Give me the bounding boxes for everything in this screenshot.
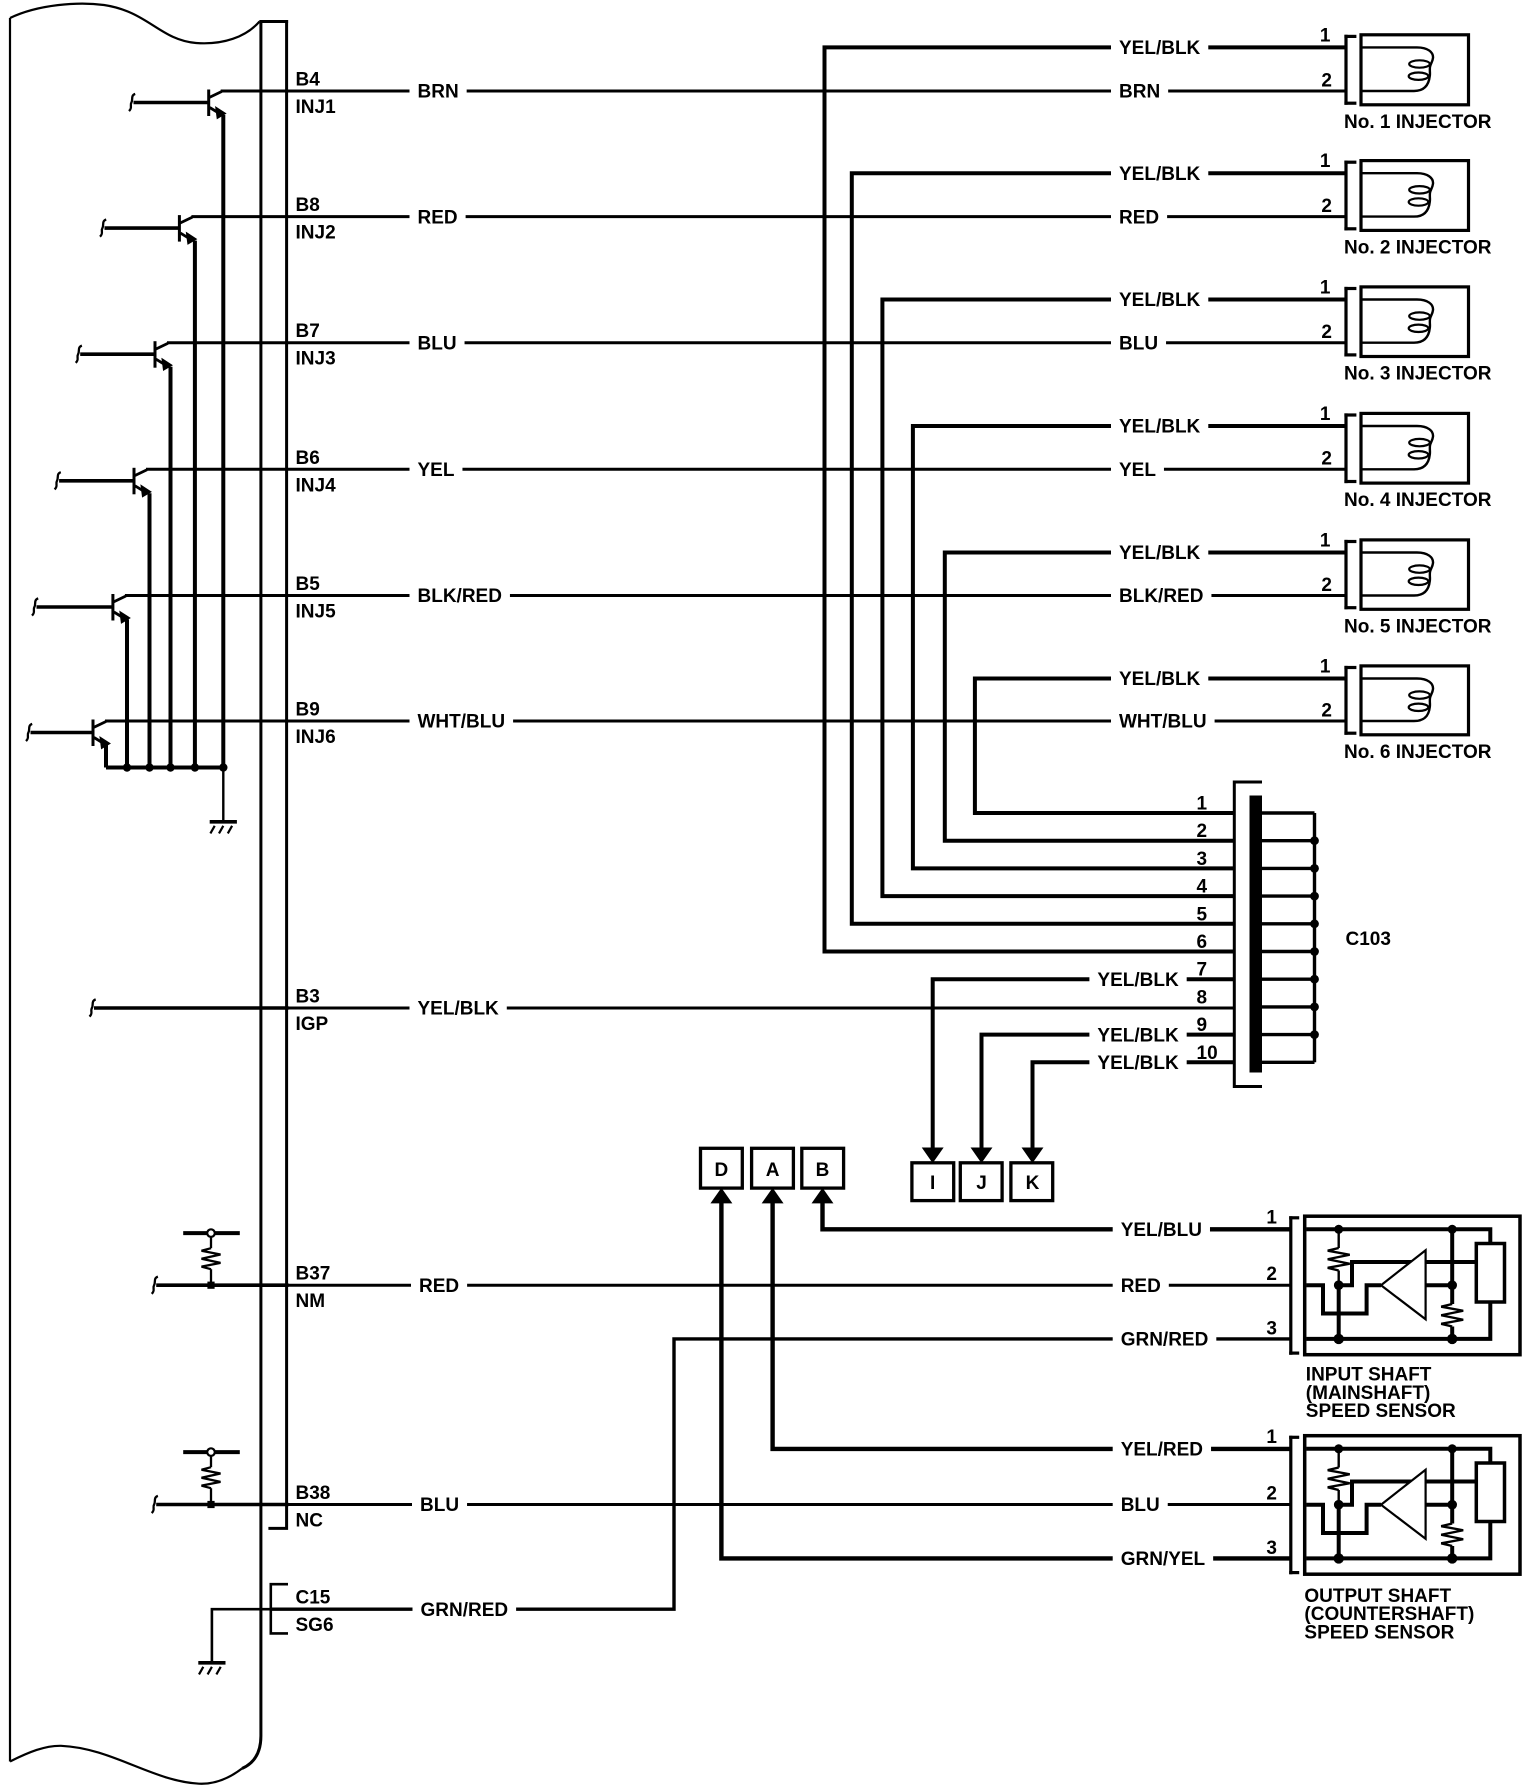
connector box D — [701, 1148, 743, 1188]
input shaft speed sensor amplifier — [1381, 1250, 1426, 1319]
wire YEL/BLK from B3/IGP to C103 pin 8 — [285, 1007, 1236, 1010]
svg-text:1: 1 — [1320, 151, 1331, 172]
svg-text:B3: B3 — [296, 987, 320, 1008]
wire label YEL/BLK (injector 4 pin 1) — [1111, 416, 1208, 437]
svg-text:2: 2 — [1321, 449, 1332, 470]
svg-text:2: 2 — [1197, 821, 1208, 842]
ECM torn-edge bottom wave — [10, 1746, 242, 1784]
transistor Q2 (INJ2 driver) base squiggle — [100, 220, 106, 237]
junction — [207, 1282, 214, 1289]
svg-text:BLU: BLU — [418, 333, 457, 354]
ECM connector strip right edge with bottom stub — [268, 20, 286, 1528]
transistor Q5 (INJ5 driver) base squiggle — [32, 598, 38, 615]
junction input shaft speed sensor bottom bus left — [1334, 1334, 1344, 1344]
transistor Q3 base bar — [154, 341, 157, 368]
svg-text:B37: B37 — [296, 1264, 331, 1285]
wire colour label WHT/BLU (left) — [410, 711, 514, 732]
svg-text:NC: NC — [296, 1511, 324, 1532]
connector C103 terminal 7 stub — [1262, 978, 1315, 981]
svg-text:YEL/BLK: YEL/BLK — [1119, 38, 1201, 59]
wire BLU from B38/NC to output shaft speed sensor pin 2 — [285, 1503, 1291, 1506]
svg-text:BLK/RED: BLK/RED — [418, 586, 502, 607]
No. 5 injector body — [1361, 540, 1469, 609]
ECM connector strip left edge — [242, 20, 261, 1769]
No. 3 injector body — [1361, 287, 1469, 357]
No. 4 injector coil — [1361, 426, 1433, 469]
wire YEL/BLK to No.1 injector pin 1 with riser to C103 pin 6 — [825, 47, 1345, 951]
svg-text:YEL/BLK: YEL/BLK — [418, 999, 500, 1020]
transistor Q4 (INJ4 driver) base squiggle — [55, 472, 61, 489]
svg-text:1: 1 — [1266, 1207, 1277, 1228]
svg-text:4: 4 — [1197, 877, 1208, 898]
output shaft speed sensor internal top bus — [1306, 1449, 1490, 1463]
emitter ground bus — [106, 766, 223, 770]
junction C103 terminal 4 — [1310, 892, 1319, 901]
svg-text:J: J — [976, 1173, 987, 1194]
wire colour label BLU (right) — [1111, 332, 1166, 353]
transistor Q5 base bar — [111, 594, 114, 621]
wire colour label WHT/BLU (right) — [1111, 711, 1215, 732]
wire colour label BLK/RED (right) — [1111, 585, 1211, 606]
svg-text:1: 1 — [1197, 794, 1208, 815]
svg-text:WHT/BLU: WHT/BLU — [418, 712, 506, 733]
transistor Q2 base bar — [178, 215, 181, 242]
wire label YEL/BLK (IGP) — [410, 998, 507, 1019]
svg-text:GRN/RED: GRN/RED — [421, 1600, 509, 1621]
wire WHT/BLU from pin B9 to No.6 injector pin 2 — [105, 720, 1345, 723]
input shaft speed sensor amplifier output wire — [1427, 1283, 1453, 1287]
svg-text:No. 1 INJECTOR: No. 1 INJECTOR — [1344, 112, 1492, 133]
arrow into connector K — [1023, 1148, 1043, 1162]
transistor Q4 emitter with arrow — [135, 486, 144, 492]
junction C103 terminal 8 — [1310, 1003, 1319, 1012]
svg-text:No. 4 INJECTOR: No. 4 INJECTOR — [1344, 490, 1492, 511]
transistor Q1 (INJ1 driver) base squiggle — [129, 94, 135, 111]
svg-text:BRN: BRN — [418, 82, 459, 103]
transistor Q4 base bar — [133, 468, 136, 495]
svg-text:SG6: SG6 — [296, 1615, 334, 1636]
junction C103 terminal 9 — [1310, 1030, 1319, 1039]
transistor Q6 base bar — [92, 720, 95, 747]
junction input shaft speed sensor top bus left — [1334, 1225, 1343, 1234]
output shaft speed sensor bias resistor (left) — [1337, 1449, 1339, 1468]
ECU pin C15 bracket — [271, 1584, 288, 1633]
svg-text:YEL/BLK: YEL/BLK — [1119, 164, 1201, 185]
transistor Q6 (INJ6 driver) base squiggle — [26, 724, 32, 741]
output shaft speed sensor internal bottom bus — [1306, 1522, 1490, 1559]
input shaft speed sensor body — [1305, 1216, 1520, 1355]
input shaft speed sensor internal bottom bus — [1306, 1302, 1490, 1339]
svg-text:YEL/BLK: YEL/BLK — [1119, 669, 1201, 690]
connector C103 terminal bar — [1250, 796, 1262, 1072]
No. 1 injector connector bracket — [1344, 35, 1347, 105]
transistor Q6 emitter with arrow — [94, 738, 103, 744]
rail connection circle — [207, 1229, 215, 1237]
svg-text:No. 2 INJECTOR: No. 2 INJECTOR — [1344, 237, 1492, 258]
svg-text:C103: C103 — [1346, 929, 1391, 950]
svg-text:RED: RED — [418, 207, 458, 228]
junction emitter bus 5 — [219, 763, 227, 771]
svg-text:5: 5 — [1197, 904, 1208, 925]
junction output shaft speed sensor top bus right — [1448, 1444, 1457, 1453]
junction emitter bus 1 — [123, 763, 131, 771]
wire colour label BLK/RED (left) — [410, 585, 510, 606]
connector box I — [912, 1163, 954, 1201]
junction input shaft speed sensor bottom bus right — [1447, 1334, 1457, 1344]
svg-text:2: 2 — [1321, 196, 1332, 217]
connector C103 terminal 8 stub — [1262, 1005, 1315, 1008]
ECM torn-edge top wave — [10, 4, 260, 44]
svg-text:INJ3: INJ3 — [296, 349, 336, 370]
svg-text:YEL/BLK: YEL/BLK — [1097, 1025, 1179, 1046]
transistor Q1 collector — [209, 92, 222, 98]
junction output shaft speed sensor top bus left — [1334, 1444, 1343, 1453]
junction emitter bus 2 — [145, 763, 153, 771]
wire YEL/BLK to No.5 injector pin 1 with riser to C103 pin 2 — [945, 553, 1345, 841]
connector C103 terminal tie bar — [1313, 813, 1316, 1062]
svg-text:YEL/BLK: YEL/BLK — [1119, 417, 1201, 438]
transistor Q2 base wire — [105, 226, 180, 230]
junction C103 terminal 7 — [1310, 975, 1319, 984]
connector C103 terminal 4 stub — [1262, 894, 1315, 897]
No. 5 injector coil — [1361, 553, 1433, 596]
svg-text:B8: B8 — [296, 195, 320, 216]
svg-text:B4: B4 — [296, 70, 321, 91]
svg-text:BRN: BRN — [1119, 82, 1160, 103]
connector C103 terminal 3 stub — [1262, 867, 1315, 870]
wire colour label RED (right) — [1113, 1275, 1169, 1296]
input shaft speed sensor bias resistor (left) — [1337, 1229, 1339, 1248]
wire colour label RED (right) — [1111, 206, 1167, 227]
wire colour label BRN (right) — [1111, 81, 1168, 102]
junction emitter bus 4 — [191, 763, 199, 771]
junction input shaft speed sensor amp output — [1447, 1280, 1457, 1290]
svg-text:SPEED SENSOR: SPEED SENSOR — [1306, 1401, 1456, 1422]
input shaft speed sensor connector bracket — [1289, 1216, 1292, 1355]
wire BLU from pin B7 to No.3 injector pin 2 — [167, 341, 1345, 344]
wire label YEL/BLK (I) — [1089, 969, 1186, 990]
connector C103 shell — [1234, 782, 1262, 1087]
wire colour label BLU (left) — [410, 332, 465, 353]
connector C103 terminal 2 stub — [1262, 839, 1315, 842]
input shaft speed sensor pin 2 input path — [1306, 1285, 1381, 1313]
svg-text:YEL/BLK: YEL/BLK — [1097, 1053, 1179, 1074]
wire colour label RED (left) — [410, 206, 466, 227]
ECM/PCM torn-edge outline left border — [9, 18, 11, 1762]
junction C103 terminal 6 — [1310, 947, 1319, 956]
wire YEL/BLK from connector J to C103 — [982, 1035, 1236, 1150]
svg-text:B38: B38 — [296, 1483, 331, 1504]
wire YEL/BLK to No.6 injector pin 1 with riser to C103 pin 1 — [975, 679, 1345, 814]
wire label YEL/BLK (K) — [1089, 1052, 1186, 1073]
wire label YEL/BLK (injector 1 pin 1) — [1111, 37, 1208, 58]
junction input shaft speed sensor mid left — [1334, 1280, 1344, 1290]
junction — [207, 1501, 214, 1508]
svg-text:SPEED SENSOR: SPEED SENSOR — [1304, 1622, 1454, 1643]
connector C103 terminal 5 stub — [1262, 922, 1315, 925]
svg-text:GRN/YEL: GRN/YEL — [1121, 1549, 1206, 1570]
wire colour label BRN (left) — [410, 81, 467, 102]
wire label YEL/BLK (injector 5 pin 1) — [1111, 542, 1208, 563]
connector box K — [1011, 1163, 1053, 1201]
junction C103 terminal 5 — [1310, 919, 1319, 928]
output shaft speed sensor amplifier — [1381, 1470, 1426, 1539]
connector C103 terminal 10 stub — [1262, 1061, 1315, 1064]
ground (injector drivers) — [210, 820, 237, 824]
svg-text:3: 3 — [1197, 849, 1208, 870]
svg-text:1: 1 — [1320, 531, 1331, 552]
transistor Q1 base bar — [207, 90, 210, 117]
svg-text:2: 2 — [1321, 322, 1332, 343]
svg-text:B9: B9 — [296, 700, 320, 721]
svg-text:No. 3 INJECTOR: No. 3 INJECTOR — [1344, 364, 1492, 385]
output shaft speed sensor pin 2 input path — [1306, 1505, 1381, 1533]
wire B3 internal with squiggle — [90, 999, 96, 1016]
connector box J — [960, 1163, 1002, 1201]
input shaft speed sensor feedback wire — [1339, 1262, 1478, 1285]
pull-up resistor — [210, 1456, 212, 1467]
No. 1 injector coil — [1361, 47, 1433, 91]
output shaft speed sensor amplifier output wire — [1427, 1503, 1453, 1507]
transistor Q1 emitter with arrow — [210, 108, 219, 114]
svg-text:K: K — [1026, 1173, 1040, 1194]
junction output shaft speed sensor amp output — [1447, 1500, 1457, 1510]
transistor Q5 base wire — [37, 605, 113, 609]
rail connection circle — [207, 1448, 215, 1456]
svg-text:2: 2 — [1266, 1264, 1277, 1285]
transistor Q5 emitter with arrow — [114, 612, 123, 618]
svg-text:1: 1 — [1266, 1427, 1277, 1448]
svg-text:A: A — [766, 1160, 780, 1181]
internal 5V rail bar — [183, 1231, 240, 1235]
transistor Q3 emitter with arrow — [156, 359, 165, 365]
No. 6 injector coil — [1361, 679, 1433, 722]
wire B37 internal with squiggle — [152, 1277, 158, 1294]
svg-text:RED: RED — [1121, 1276, 1161, 1297]
input shaft speed sensor divider resistor (right) — [1450, 1229, 1454, 1304]
svg-text:GRN/RED: GRN/RED — [1121, 1330, 1209, 1351]
wire BLK/RED from pin B5 to No.5 injector pin 2 — [125, 594, 1345, 597]
transistor Q2 collector — [180, 217, 193, 223]
wire YEL/BLU from B to speed sensor — [823, 1201, 1291, 1229]
svg-text:1: 1 — [1320, 25, 1331, 46]
wire YEL/BLK to No.3 injector pin 1 with riser to C103 pin 4 — [882, 300, 1344, 897]
wire colour label RED (left) — [411, 1275, 467, 1296]
junction output shaft speed sensor mid left — [1334, 1500, 1344, 1510]
svg-text:B7: B7 — [296, 321, 320, 342]
svg-text:YEL/RED: YEL/RED — [1121, 1440, 1203, 1461]
svg-text:RED: RED — [1119, 207, 1159, 228]
svg-text:INJ5: INJ5 — [296, 602, 337, 623]
pull-up resistor — [210, 1237, 212, 1248]
wire YEL/RED from A to speed sensor — [773, 1201, 1291, 1449]
transistor Q3 collector — [156, 343, 169, 349]
svg-text:I: I — [930, 1173, 935, 1194]
svg-text:2: 2 — [1321, 700, 1332, 721]
output shaft speed sensor divider resistor (right) — [1450, 1449, 1454, 1524]
transistor Q3 (INJ3 driver) base squiggle — [76, 346, 82, 363]
junction input shaft speed sensor top bus right — [1448, 1225, 1457, 1234]
No. 2 injector coil — [1361, 173, 1433, 216]
svg-text:1: 1 — [1320, 278, 1331, 299]
svg-text:INJ6: INJ6 — [296, 727, 336, 748]
transistor Q6 emitter wire to ground bus — [104, 745, 108, 768]
svg-text:YEL: YEL — [418, 460, 455, 481]
svg-text:2: 2 — [1321, 70, 1332, 91]
svg-text:YEL/BLK: YEL/BLK — [1097, 970, 1179, 991]
svg-text:3: 3 — [1266, 1538, 1277, 1559]
transistor Q5 collector — [113, 596, 126, 602]
No. 6 injector body — [1361, 666, 1469, 735]
transistor Q6 collector — [94, 722, 107, 728]
arrow into connector J — [972, 1148, 992, 1162]
arrow into connector B — [813, 1189, 833, 1203]
wire colour label GRN/RED (right) — [1113, 1328, 1217, 1349]
No. 2 injector body — [1361, 161, 1469, 231]
wire colour label BLU (right) — [1113, 1494, 1168, 1515]
svg-text:WHT/BLU: WHT/BLU — [1119, 712, 1207, 733]
connector C103 terminal 6 stub — [1262, 950, 1315, 953]
svg-text:BLU: BLU — [1121, 1495, 1160, 1516]
wire colour label GRN/RED (left) — [413, 1599, 517, 1620]
arrow into connector D — [711, 1189, 731, 1203]
transistor Q4 collector — [135, 470, 148, 476]
output shaft speed sensor body — [1305, 1436, 1520, 1575]
svg-text:IGP: IGP — [296, 1014, 329, 1035]
wire GRN/YEL from D to speed sensor — [721, 1201, 1290, 1558]
wire B38 internal with squiggle — [152, 1496, 158, 1513]
svg-text:INJ4: INJ4 — [296, 475, 337, 496]
junction emitter bus 3 — [166, 763, 174, 771]
svg-text:No. 5 INJECTOR: No. 5 INJECTOR — [1344, 616, 1492, 637]
arrow into connector I — [923, 1148, 943, 1162]
transistor Q3 base wire — [80, 352, 155, 356]
wire YEL/BLK to No.4 injector pin 1 with riser to C103 pin 3 — [913, 426, 1345, 868]
transistor Q2 emitter with arrow — [180, 233, 189, 239]
No. 4 injector body — [1361, 413, 1469, 483]
svg-text:BLK/RED: BLK/RED — [1119, 586, 1203, 607]
svg-text:INJ1: INJ1 — [296, 97, 337, 118]
No. 3 injector coil — [1361, 300, 1433, 343]
output shaft speed sensor pickup coil element — [1476, 1463, 1504, 1522]
junction output shaft speed sensor bottom bus left — [1334, 1553, 1344, 1563]
wire YEL from pin B6 to No.4 injector pin 2 — [146, 468, 1345, 471]
svg-text:6: 6 — [1197, 932, 1208, 953]
svg-text:YEL/BLK: YEL/BLK — [1119, 290, 1201, 311]
wire label YEL/BLU — [1113, 1219, 1210, 1240]
svg-text:D: D — [715, 1160, 729, 1181]
svg-text:RED: RED — [419, 1276, 459, 1297]
connector box A — [752, 1148, 794, 1188]
output shaft speed sensor connector bracket — [1289, 1436, 1292, 1575]
transistor Q1 base wire — [134, 101, 209, 105]
connector box B — [802, 1148, 844, 1188]
wire label GRN/YEL — [1113, 1548, 1213, 1569]
svg-text:BLU: BLU — [1119, 333, 1158, 354]
No. 5 injector connector bracket — [1344, 540, 1347, 609]
No. 3 injector connector bracket — [1344, 287, 1347, 357]
wire label YEL/RED — [1113, 1438, 1211, 1459]
svg-text:2: 2 — [1321, 575, 1332, 596]
transistor Q3 emitter wire to ground bus — [169, 367, 173, 768]
junction output shaft speed sensor bottom bus right — [1447, 1553, 1457, 1563]
svg-text:B: B — [816, 1160, 830, 1181]
svg-text:No. 6 INJECTOR: No. 6 INJECTOR — [1344, 742, 1492, 763]
svg-text:B6: B6 — [296, 448, 320, 469]
svg-text:C15: C15 — [296, 1588, 331, 1609]
ground (sensor ground SG6) — [198, 1661, 225, 1665]
wire label YEL/BLK (injector 3 pin 1) — [1111, 289, 1208, 310]
transistor Q2 emitter wire to ground bus — [193, 241, 197, 768]
svg-text:YEL: YEL — [1119, 460, 1156, 481]
wire GRN/RED from C15/SG6 to input shaft speed sensor pin 3 — [271, 1339, 1291, 1609]
internal 5V rail bar — [183, 1450, 240, 1454]
wire RED from B37/NM to input shaft speed sensor pin 2 — [285, 1284, 1291, 1287]
svg-text:BLU: BLU — [420, 1495, 459, 1516]
No. 1 injector body — [1361, 35, 1469, 105]
No. 6 injector connector bracket — [1344, 666, 1347, 735]
wire BRN from pin B4 to No.1 injector pin 2 — [221, 90, 1345, 93]
junction C103 terminal 3 — [1310, 864, 1319, 873]
svg-text:NM: NM — [296, 1291, 326, 1312]
wire RED from pin B8 to No.2 injector pin 2 — [191, 215, 1344, 218]
wire YEL/BLK to No.2 injector pin 1 with riser to C103 pin 5 — [852, 173, 1345, 924]
wire bus to ground — [222, 768, 224, 822]
svg-text:YEL/BLK: YEL/BLK — [1119, 543, 1201, 564]
wire YEL/BLK from connector K to C103 — [1033, 1062, 1236, 1150]
connector C103 terminal 9 stub — [1262, 1033, 1315, 1036]
input shaft speed sensor pickup coil element — [1476, 1244, 1504, 1303]
wire C15 internal to ground — [212, 1609, 273, 1663]
svg-text:B5: B5 — [296, 574, 321, 595]
transistor Q4 emitter wire to ground bus — [148, 493, 152, 767]
svg-text:YEL/BLU: YEL/BLU — [1121, 1220, 1202, 1241]
arrow into connector A — [763, 1189, 783, 1203]
wire colour label BLU (left) — [412, 1494, 467, 1515]
No. 2 injector connector bracket — [1344, 161, 1347, 231]
transistor Q5 emitter wire to ground bus — [125, 620, 129, 768]
output shaft speed sensor feedback wire — [1339, 1482, 1478, 1505]
ECM connector strip top cap — [259, 20, 288, 23]
wire label YEL/BLK (injector 2 pin 1) — [1111, 163, 1208, 184]
junction C103 terminal 2 — [1310, 836, 1319, 845]
svg-text:2: 2 — [1266, 1484, 1277, 1505]
wire colour label YEL (right) — [1111, 459, 1164, 480]
svg-text:1: 1 — [1320, 404, 1331, 425]
svg-text:3: 3 — [1266, 1318, 1277, 1339]
input shaft speed sensor internal top bus — [1306, 1229, 1490, 1243]
svg-text:INJ2: INJ2 — [296, 223, 336, 244]
wire label YEL/BLK (injector 6 pin 1) — [1111, 668, 1208, 689]
transistor Q6 base wire — [31, 731, 94, 735]
transistor Q4 base wire — [59, 479, 134, 483]
wire YEL/BLK from connector I to C103 — [933, 979, 1236, 1150]
wire colour label YEL (left) — [410, 459, 463, 480]
connector C103 terminal 1 stub — [1262, 811, 1315, 814]
svg-text:1: 1 — [1320, 657, 1331, 678]
transistor Q1 emitter wire to ground bus — [221, 115, 225, 768]
svg-text:8: 8 — [1197, 987, 1208, 1008]
wire label YEL/BLK (J) — [1089, 1024, 1186, 1045]
No. 4 injector connector bracket — [1344, 413, 1347, 483]
